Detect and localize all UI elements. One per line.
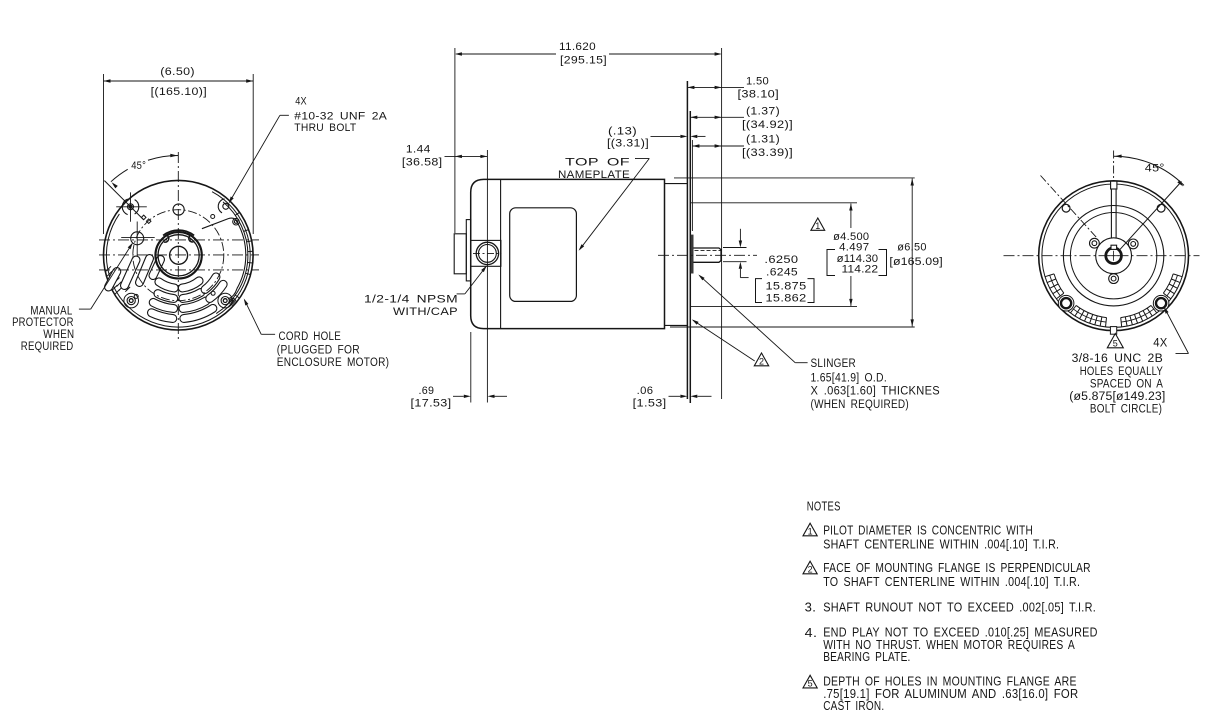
middle view extension line for 1.31 bbox=[691, 140, 693, 231]
left view rim inner arc bbox=[106, 192, 250, 327]
svg-text:[17.53]: [17.53] bbox=[411, 397, 452, 409]
svg-text:2: 2 bbox=[759, 356, 764, 366]
left view thru bolt upper-left with crosshair and arcs bbox=[128, 204, 134, 210]
middle view left extension line bbox=[454, 48, 456, 233]
left view grille arc slots row1 bbox=[159, 282, 174, 288]
left view horizontal centerline upper bbox=[99, 239, 259, 241]
right view 45-degree radial line bbox=[1120, 182, 1182, 250]
svg-text:THRU BOLT: THRU BOLT bbox=[294, 122, 356, 134]
right view top centerline stub bbox=[1113, 151, 1115, 180]
left view cover screw lower bbox=[229, 298, 236, 305]
middle view NPSM crosshair bbox=[473, 252, 502, 254]
dimension (1.31) line with arrows bbox=[692, 145, 744, 147]
left view rim ticks bbox=[235, 212, 253, 298]
dimension 1.50 line with arrows bbox=[687, 86, 721, 88]
svg-text:TO SHAFT CENTERLINE WITHIN .00: TO SHAFT CENTERLINE WITHIN .004[.10] T.I… bbox=[823, 575, 1080, 589]
right view vent band bbox=[1045, 274, 1182, 327]
left view small hole lower-left bbox=[134, 294, 138, 298]
right view bolt holes lower bbox=[1058, 295, 1074, 311]
left view grille arc slots row2 bbox=[158, 294, 174, 299]
svg-text:[(34.92)]: [(34.92)] bbox=[742, 119, 793, 131]
svg-text:BOLT CIRCLE): BOLT CIRCLE) bbox=[1090, 404, 1162, 416]
left view hub outer ring circle bbox=[155, 232, 201, 278]
left view grille arc slots row4 bbox=[151, 313, 172, 319]
middle view conduit centerline / extension line bbox=[486, 150, 488, 403]
left view bolt circle (dash-dot) bbox=[133, 210, 224, 301]
left view thru bolt upper-right with hook arc bbox=[223, 203, 229, 209]
middle view NPSM cap circles bbox=[476, 242, 498, 264]
right view bottom rim notch bbox=[1110, 327, 1116, 335]
svg-text:1: 1 bbox=[815, 221, 820, 231]
leader for cord hole bbox=[261, 333, 275, 335]
svg-text:4X: 4X bbox=[295, 96, 307, 108]
middle view conduit plate bbox=[466, 220, 470, 281]
middle view conduit cap bbox=[454, 234, 466, 274]
dimension (1.37) line with arrows bbox=[690, 116, 744, 118]
dimension 4.500 extension lines bbox=[691, 202, 858, 204]
svg-text:4.497: 4.497 bbox=[839, 241, 869, 253]
note 2 triangle bbox=[803, 561, 817, 574]
svg-text:45°: 45° bbox=[131, 160, 146, 172]
left view terminal cover outline bbox=[202, 218, 237, 229]
left view thru bolt lower-left with boss bbox=[124, 293, 139, 308]
svg-text:.6245: .6245 bbox=[766, 266, 798, 278]
svg-text:1/2-1/4 NPSM: 1/2-1/4 NPSM bbox=[364, 293, 458, 305]
svg-text:114.22: 114.22 bbox=[842, 263, 879, 275]
svg-text:5: 5 bbox=[808, 678, 813, 688]
svg-text:4.: 4. bbox=[805, 626, 818, 640]
svg-text:[(3.31)]: [(3.31)] bbox=[607, 138, 649, 150]
dimension .69 arrows bbox=[453, 395, 464, 397]
right view 45-degree dimension arc bbox=[1114, 156, 1184, 185]
dimension 15.875 bracket and text bbox=[756, 279, 763, 303]
svg-text:.6250: .6250 bbox=[764, 254, 798, 266]
svg-text:WITH/CAP: WITH/CAP bbox=[393, 306, 458, 318]
middle view extension line at shaft end bbox=[721, 48, 723, 399]
leader for thru bolt label bbox=[280, 114, 289, 116]
svg-text:(1.31): (1.31) bbox=[746, 134, 780, 146]
middle view front bell top and bottom lines bbox=[665, 183, 688, 185]
leader for slinger bbox=[795, 362, 807, 364]
svg-text:[38.10]: [38.10] bbox=[738, 89, 780, 101]
svg-text:(6.50): (6.50) bbox=[160, 66, 195, 78]
svg-text:1.50: 1.50 bbox=[746, 76, 769, 88]
right view bolt holes upper bbox=[1062, 204, 1070, 212]
right view shaft keyway notch bbox=[1111, 245, 1117, 249]
svg-text:PROTECTOR: PROTECTOR bbox=[12, 317, 74, 329]
left view hub inner ring circle bbox=[158, 235, 199, 276]
svg-text:SHAFT RUNOUT NOT TO EXCEED .00: SHAFT RUNOUT NOT TO EXCEED .002[.05] T.I… bbox=[823, 600, 1096, 614]
svg-text:TOP OF: TOP OF bbox=[565, 156, 630, 168]
svg-text:PILOT DIAMETER IS CONCENTRIC W: PILOT DIAMETER IS CONCENTRIC WITH bbox=[823, 524, 1033, 538]
dimension 6.50 dim line with arrows bbox=[911, 179, 913, 327]
note triangle 2 in middle view with leader bbox=[693, 320, 755, 361]
right view outer circle bbox=[1039, 181, 1189, 331]
svg-text:15.862: 15.862 bbox=[766, 292, 807, 304]
left view 45-degree radial line bbox=[104, 181, 143, 220]
svg-text:[(33.39)]: [(33.39)] bbox=[742, 147, 793, 159]
left view: motor rear end view outer circle bbox=[104, 180, 254, 330]
svg-text:(.13): (.13) bbox=[608, 126, 637, 138]
svg-text:WHEN: WHEN bbox=[43, 329, 74, 341]
svg-text:3.: 3. bbox=[805, 600, 817, 614]
svg-text:CAST IRON.: CAST IRON. bbox=[823, 699, 884, 713]
svg-text:1: 1 bbox=[808, 526, 813, 536]
right view keyway top notch bbox=[1111, 181, 1117, 189]
svg-text:2: 2 bbox=[808, 564, 813, 574]
svg-text:(1.37): (1.37) bbox=[746, 106, 780, 118]
svg-text:5: 5 bbox=[1113, 338, 1118, 348]
svg-text:(PLUGGED FOR: (PLUGGED FOR bbox=[277, 344, 360, 356]
svg-text:(ø5.875[ø149.23]: (ø5.875[ø149.23] bbox=[1069, 391, 1165, 403]
note triangle 1 in middle view bbox=[811, 218, 825, 230]
svg-text:.69: .69 bbox=[419, 385, 435, 397]
middle view shaft centerline bbox=[658, 254, 757, 256]
left view shaft hole bbox=[170, 246, 188, 264]
dimension 114.30 bracket and text bbox=[827, 250, 835, 276]
svg-text:.06: .06 bbox=[637, 385, 654, 397]
svg-text:1.65[41.9] O.D.: 1.65[41.9] O.D. bbox=[811, 372, 888, 384]
svg-text:X .063[1.60] THICKNES: X .063[1.60] THICKNES bbox=[811, 386, 941, 398]
dimension .69 extension line bbox=[470, 332, 472, 403]
svg-text:MANUAL: MANUAL bbox=[30, 305, 72, 317]
dimension .6250 dim arrows bbox=[739, 229, 741, 241]
right view horizontal centerline bbox=[1004, 255, 1200, 257]
leader for manual protector bbox=[79, 308, 91, 310]
svg-text:NOTES: NOTES bbox=[807, 499, 841, 513]
left view thru bolt lower-right with boss bbox=[218, 293, 233, 308]
svg-text:15.875: 15.875 bbox=[766, 280, 807, 292]
left view tiny squares on bolt circle bbox=[141, 215, 146, 220]
middle view shaft keyway hidden line bbox=[695, 249, 721, 251]
left view grille arc slots row3 bbox=[153, 302, 173, 308]
svg-text:[295.15]: [295.15] bbox=[560, 55, 607, 67]
svg-text:HOLES EQUALLY: HOLES EQUALLY bbox=[1080, 366, 1163, 378]
right view rim circle bbox=[1042, 184, 1185, 327]
right view keyway slot bbox=[1110, 189, 1112, 238]
note 1 triangle bbox=[803, 523, 817, 536]
svg-text:[36.58]: [36.58] bbox=[402, 156, 443, 168]
svg-text:SHAFT CENTERLINE WITHIN .004[.: SHAFT CENTERLINE WITHIN .004[.10] T.I.R. bbox=[823, 537, 1059, 551]
left view vertical centerline bbox=[177, 152, 179, 341]
svg-text:BEARING PLATE.: BEARING PLATE. bbox=[823, 650, 910, 664]
svg-text:(WHEN REQUIRED): (WHEN REQUIRED) bbox=[811, 399, 910, 411]
dimension 11.620 line with arrows bbox=[456, 53, 556, 55]
middle view slinger (filled) bbox=[691, 235, 694, 274]
svg-text:NAMEPLATE: NAMEPLATE bbox=[558, 169, 630, 181]
note triangle 5 in right view bbox=[1107, 334, 1123, 348]
left view horizontal centerline lower bbox=[99, 269, 259, 271]
dimension (6.50) line with arrows bbox=[104, 80, 254, 82]
middle view endbell joint line left bbox=[500, 179, 502, 328]
middle view shaft outline bbox=[693, 248, 721, 262]
leader for NPSM bbox=[457, 293, 465, 295]
svg-text:11.620: 11.620 bbox=[559, 41, 596, 53]
right view pilot circle bbox=[1063, 206, 1163, 306]
svg-text:SPACED ON A: SPACED ON A bbox=[1090, 379, 1163, 391]
note 5 triangle bbox=[803, 675, 817, 688]
left view grille louver slots upper-left bbox=[109, 272, 117, 288]
left view hub retaining clip arc with hooks bbox=[163, 230, 194, 235]
left view top hole on bolt circle bbox=[173, 204, 184, 215]
left view cover screw upper bbox=[233, 218, 240, 225]
svg-text:1.44: 1.44 bbox=[406, 144, 431, 156]
dimension .6250 extension ticks bbox=[723, 247, 747, 249]
leader for bolt holes label bbox=[1176, 353, 1189, 355]
left view right-side band arc bbox=[216, 202, 248, 314]
middle view flange plate rear line bbox=[686, 81, 688, 399]
left view manual protector circle with crosshair bbox=[131, 232, 144, 245]
svg-text:ENCLOSURE MOTOR): ENCLOSURE MOTOR) bbox=[277, 357, 390, 369]
leader for top of nameplate bbox=[635, 158, 649, 160]
left view horizontal centerline middle bbox=[99, 254, 259, 256]
left view louver flank hatch marks bbox=[106, 266, 130, 294]
svg-text:[1.53]: [1.53] bbox=[633, 397, 667, 409]
dimension .06 arrows bbox=[669, 395, 681, 397]
dimension 1.44 line with arrows bbox=[445, 155, 488, 157]
svg-text:#10-32 UNF 2A: #10-32 UNF 2A bbox=[294, 111, 387, 123]
dimension 6.50 extension lines bbox=[674, 177, 915, 179]
svg-text:[ø165.09]: [ø165.09] bbox=[889, 256, 942, 268]
middle view flange plate face line bbox=[689, 111, 691, 403]
left view small hole lower bbox=[211, 291, 215, 295]
right view diagonal centerline upper-left bbox=[1041, 176, 1098, 239]
middle view motor body outline bbox=[471, 179, 665, 328]
svg-text:CORD HOLE: CORD HOLE bbox=[279, 331, 342, 343]
svg-text:SLINGER: SLINGER bbox=[811, 358, 857, 370]
left view small hole upper bbox=[211, 215, 215, 219]
svg-text:ø6.50: ø6.50 bbox=[897, 242, 927, 254]
svg-text:FACE OF MOUNTING FLANGE IS PER: FACE OF MOUNTING FLANGE IS PERPENDICULAR bbox=[823, 561, 1091, 575]
left view 45-degree dimension arc with arrows bbox=[111, 169, 128, 181]
svg-text:4X: 4X bbox=[1153, 337, 1167, 349]
right view hub circle bbox=[1096, 238, 1132, 274]
dimension 4.500 dim line with arrows bbox=[850, 204, 852, 229]
svg-text:[(165.10)]: [(165.10)] bbox=[151, 86, 207, 98]
svg-text:3/8-16 UNC 2B: 3/8-16 UNC 2B bbox=[1072, 353, 1164, 365]
right view shaft bore bbox=[1106, 248, 1122, 264]
svg-text:45°: 45° bbox=[1145, 163, 1165, 175]
middle view nameplate bbox=[510, 208, 577, 302]
middle view conduit boss box bbox=[471, 240, 501, 266]
right view hub small holes bbox=[1090, 238, 1100, 248]
right view inner boss circle bbox=[1070, 213, 1156, 299]
dimension (.13) leader arrows bbox=[651, 135, 681, 137]
dimension (6.50) extension lines bbox=[103, 74, 105, 234]
svg-text:REQUIRED: REQUIRED bbox=[21, 341, 74, 353]
